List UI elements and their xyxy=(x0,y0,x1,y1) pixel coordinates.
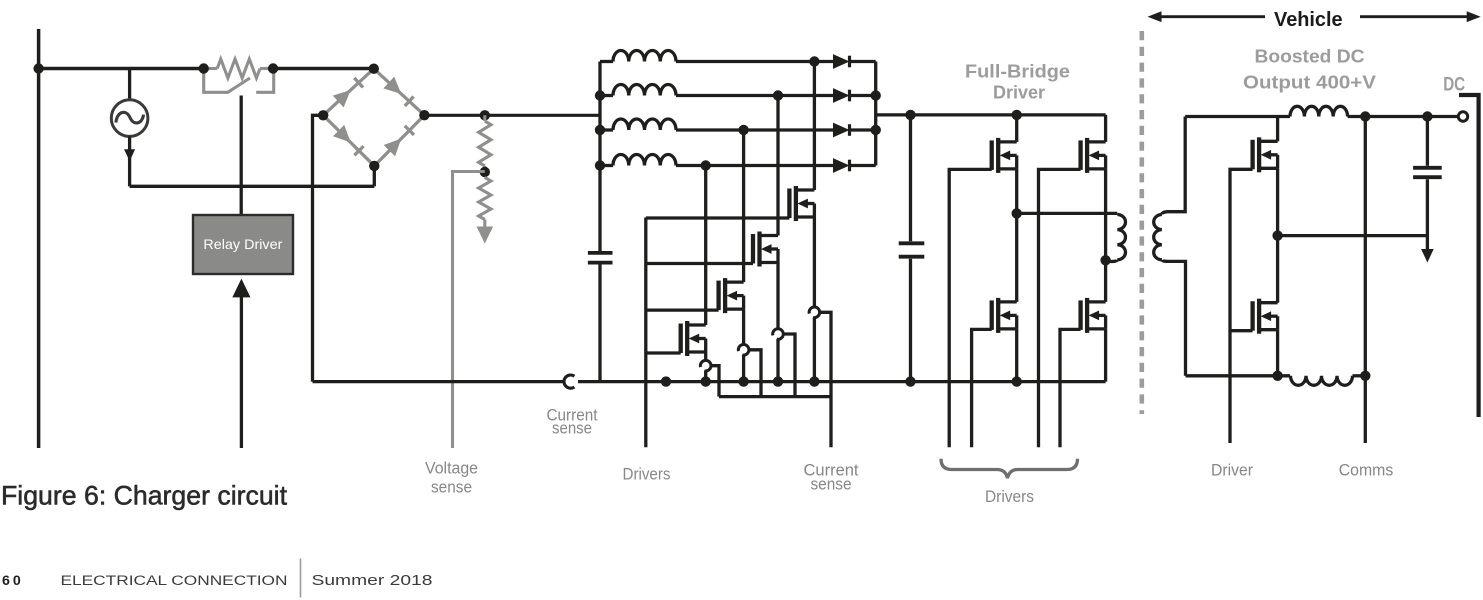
junction: comms rail node xyxy=(1360,371,1370,381)
junction: vehicle midpoint xyxy=(1272,230,1282,240)
wire: Q4 gate lead xyxy=(646,216,790,219)
junction: voltage sense tap xyxy=(480,167,490,177)
capacitor C3 xyxy=(1413,117,1442,250)
arrow: vehicle extent left xyxy=(1148,11,1266,22)
wire: Q2 gate lead xyxy=(646,308,719,311)
bracket: DC output xyxy=(1459,95,1479,417)
wire: CS3 sense tap xyxy=(783,334,795,397)
arrow: control input to relay driver xyxy=(232,279,250,448)
wire: branch 1 to diode xyxy=(676,60,834,63)
label: page number xyxy=(2,573,21,589)
wire: Q3 gate lead xyxy=(646,262,753,265)
wire: CS2 sense tap xyxy=(749,350,761,397)
junction: Q7 source rail node xyxy=(1012,376,1022,386)
wire: Q2 drain riser xyxy=(742,130,745,282)
wire: CS1 to ground rail xyxy=(704,371,707,382)
svg-text:Vehicle: Vehicle xyxy=(1274,9,1343,31)
label: Current sense (CT1) xyxy=(547,406,598,438)
wire: Q1 source to sense loop xyxy=(704,352,707,360)
svg-text:60: 60 xyxy=(2,573,21,589)
wire: left input rail xyxy=(37,29,41,448)
wire: CS3 to ground rail xyxy=(776,339,779,381)
label: DC xyxy=(1443,74,1465,95)
wire: rectifier output rail xyxy=(874,62,877,166)
label: Drivers (full-bridge) xyxy=(985,487,1034,506)
wire: AC return xyxy=(130,185,375,188)
svg-text:Relay Driver: Relay Driver xyxy=(203,237,282,252)
svg-text:sense: sense xyxy=(811,474,852,493)
current transformer CT1 xyxy=(564,375,574,388)
junction: C2 bottom xyxy=(905,376,915,386)
wire: Q1 drain riser xyxy=(704,166,707,326)
wire: vehicle mid rail xyxy=(1278,234,1428,237)
MOSFET Q10 (vehicle low-side) xyxy=(1253,236,1278,376)
current sense loop CS1 xyxy=(700,360,711,371)
current sense loop CS2 xyxy=(738,345,749,356)
MOSFET Q2 xyxy=(719,278,744,313)
label: Voltage sense xyxy=(425,459,478,497)
diode D4 (bridge bottom-right) xyxy=(374,115,424,166)
boundary: vehicle dashed line xyxy=(1140,31,1145,414)
wire: HV DC bus xyxy=(876,113,1106,116)
wire: rail to comms xyxy=(1353,374,1366,377)
junction: rail-branch2 xyxy=(871,90,881,100)
junction: branch 4 input xyxy=(595,160,605,170)
junction: voltage sense top xyxy=(480,110,490,120)
capacitor C1 xyxy=(588,253,613,382)
footer divider xyxy=(300,559,302,598)
resistor R1 (inrush bypass) xyxy=(204,59,273,78)
svg-text:Drivers: Drivers xyxy=(985,487,1034,506)
svg-text:Driver: Driver xyxy=(993,81,1045,102)
wire: AC source bottom lead xyxy=(128,136,131,186)
junction: bridge left midpoint xyxy=(1012,208,1022,218)
label: magazine name xyxy=(61,573,288,589)
diode D7 xyxy=(833,123,876,138)
AC source V1 xyxy=(111,100,148,137)
svg-text:sense: sense xyxy=(552,419,592,438)
label: Comms xyxy=(1339,461,1394,480)
MOSFET Q9 (vehicle high-side) xyxy=(1253,117,1278,236)
label: figure caption xyxy=(1,480,288,510)
wire: relay actuation line xyxy=(240,96,243,216)
wire: ground rail left xyxy=(313,380,564,383)
junction: primary to right leg xyxy=(1100,255,1110,265)
wire: branch 4 to diode xyxy=(676,164,834,167)
junction: R1 left node xyxy=(199,63,209,73)
wire: vehicle top bus left xyxy=(1185,115,1290,118)
diode D1 (bridge left-top) xyxy=(323,69,374,116)
junction: bridge DC plus xyxy=(419,110,429,120)
junction: AC input node xyxy=(33,63,43,73)
label: Driver xyxy=(1211,461,1253,480)
resistor R3 (voltage sense lower) xyxy=(479,178,491,228)
junction: bridge AC top xyxy=(369,63,379,73)
junction: bridge AC bottom xyxy=(369,161,379,171)
junction: branch 3 input xyxy=(595,125,605,135)
wire: bridge bottom lead xyxy=(373,166,376,186)
svg-text:sense: sense xyxy=(431,478,472,497)
terminal: DC output xyxy=(1458,112,1467,121)
svg-text:Boosted DC: Boosted DC xyxy=(1255,45,1365,66)
svg-text:Driver: Driver xyxy=(1211,461,1253,480)
label: Current sense (boost) xyxy=(804,460,859,493)
label: Drivers (boost) xyxy=(623,464,671,483)
MOSFET Q5 (bridge high-left) xyxy=(992,115,1017,213)
junction: C3 top node xyxy=(1422,111,1432,121)
junction: Q1 source rail node xyxy=(701,376,711,386)
wire: AC source top lead xyxy=(128,69,131,100)
label: Relay Driver xyxy=(203,237,282,252)
inductor L6 (return choke) xyxy=(1291,376,1353,386)
junction: branch 1 drain node xyxy=(809,56,819,66)
relay driver box xyxy=(193,215,293,274)
label: issue xyxy=(312,573,433,589)
svg-text:Summer 2018: Summer 2018 xyxy=(312,573,433,589)
diode D2 (bridge top-right) xyxy=(374,69,425,116)
junction: R1 right node xyxy=(268,63,278,73)
inductor L2 xyxy=(600,85,676,96)
capacitor C2 xyxy=(899,115,925,382)
wire: CS4 to ground rail xyxy=(813,318,816,382)
wire: Q8 gate lead xyxy=(1060,329,1081,447)
wire: branch 2 to diode xyxy=(676,94,834,97)
arrow: AC current direction xyxy=(124,149,135,161)
inductor L3 xyxy=(600,119,676,130)
wire: Q2 source to sense loop xyxy=(742,309,745,344)
diode D5 xyxy=(833,54,876,69)
wire: CS2 to ground rail xyxy=(742,355,745,382)
wire: Q7 gate lead xyxy=(972,329,992,447)
svg-text:Output 400+V: Output 400+V xyxy=(1243,72,1377,93)
relay contact K1 xyxy=(204,71,274,93)
wire: voltage sense line xyxy=(453,172,485,449)
arrow: vehicle extent right xyxy=(1360,11,1481,22)
arrow: C3 return xyxy=(1421,249,1434,263)
transformer T1 secondary xyxy=(1154,117,1186,376)
junction: Q2 source rail node xyxy=(738,376,748,386)
wire: AC live (top, left of R1) xyxy=(37,67,204,70)
junction: Q4 source rail node xyxy=(809,376,819,386)
wire: CS4 sense tap xyxy=(820,312,831,447)
wire: Q3 drain riser xyxy=(776,96,779,236)
wire: Q4 drain riser xyxy=(813,62,816,191)
junction: Q10 source rail node xyxy=(1272,371,1282,381)
transformer T1 primary xyxy=(1017,213,1126,261)
MOSFET Q3 xyxy=(753,232,778,267)
inductor L1 xyxy=(600,51,676,62)
junction: rail node A xyxy=(661,376,671,386)
svg-text:DC: DC xyxy=(1443,74,1465,95)
wire: gate bus xyxy=(644,218,647,448)
svg-text:Drivers: Drivers xyxy=(623,464,671,483)
wire: ground rail main xyxy=(578,380,1106,383)
junction: bridge DC minus xyxy=(318,110,328,120)
wire: Q1 gate lead xyxy=(646,351,681,354)
current sense loop CS4 xyxy=(809,307,820,318)
arrow: R3 return xyxy=(477,227,494,244)
wire: PFC input vertical xyxy=(598,62,601,252)
svg-text:Full-Bridge: Full-Bridge xyxy=(965,60,1070,81)
svg-text:ELECTRICAL CONNECTION: ELECTRICAL CONNECTION xyxy=(61,573,288,589)
wire: Q4 source to sense loop xyxy=(813,217,816,307)
wire: Q3 source to sense loop xyxy=(776,263,779,329)
wire: comms line xyxy=(1364,117,1367,444)
junction: Q3 source rail node xyxy=(773,376,783,386)
brace: drivers group xyxy=(941,459,1078,479)
svg-text:Comms: Comms xyxy=(1339,461,1394,480)
wire: DC minus down to ground rail xyxy=(313,115,324,381)
wire: vehicle ground rail xyxy=(1186,374,1291,377)
wire: CS1 sense tap xyxy=(711,366,719,397)
junction: C2 top xyxy=(905,110,915,120)
svg-text:Voltage: Voltage xyxy=(425,459,478,478)
junction: rail-branch3 xyxy=(871,125,881,135)
inductor L5 (output choke) xyxy=(1290,106,1348,116)
wire: vehicle gate line xyxy=(1230,169,1253,443)
junction: branch 4 drain node xyxy=(701,160,711,170)
wire: Q5 gate lead xyxy=(949,169,992,447)
wire: DC plus bus xyxy=(424,114,600,117)
junction: comms top node xyxy=(1360,111,1370,121)
diode D6 xyxy=(833,88,876,103)
junction: branch 2 input xyxy=(595,90,605,100)
wire: branch 3 to diode xyxy=(676,128,834,131)
diode D8 xyxy=(833,158,876,173)
svg-text:Figure 6: Charger circuit: Figure 6: Charger circuit xyxy=(1,480,288,510)
label: Vehicle xyxy=(1274,9,1343,31)
label: Full-Bridge Driver xyxy=(965,60,1070,102)
wire: current sense bus xyxy=(719,395,831,398)
junction: full-bridge top xyxy=(1012,110,1022,120)
MOSFET Q6 (bridge high-right) xyxy=(1081,115,1106,302)
MOSFET Q7 (bridge low-left) xyxy=(992,213,1017,381)
wire: AC live (top, right of R1) xyxy=(273,67,374,70)
diode D3 (bridge left-bottom) xyxy=(323,115,374,166)
resistor R2 (voltage sense upper) xyxy=(479,115,491,172)
MOSFET Q1 xyxy=(681,321,706,356)
junction: branch 3 drain node xyxy=(738,125,748,135)
inductor L4 xyxy=(600,155,676,166)
wire: vehicle top bus right xyxy=(1348,115,1459,118)
MOSFET Q4 xyxy=(789,186,814,221)
wire: Q6 gate lead xyxy=(1039,169,1081,447)
junction: branch 2 drain node xyxy=(773,90,783,100)
label: Boosted DC Output 400+V xyxy=(1243,45,1377,92)
current sense loop CS3 xyxy=(773,329,784,340)
MOSFET Q8 (bridge low-right) xyxy=(1081,298,1106,382)
